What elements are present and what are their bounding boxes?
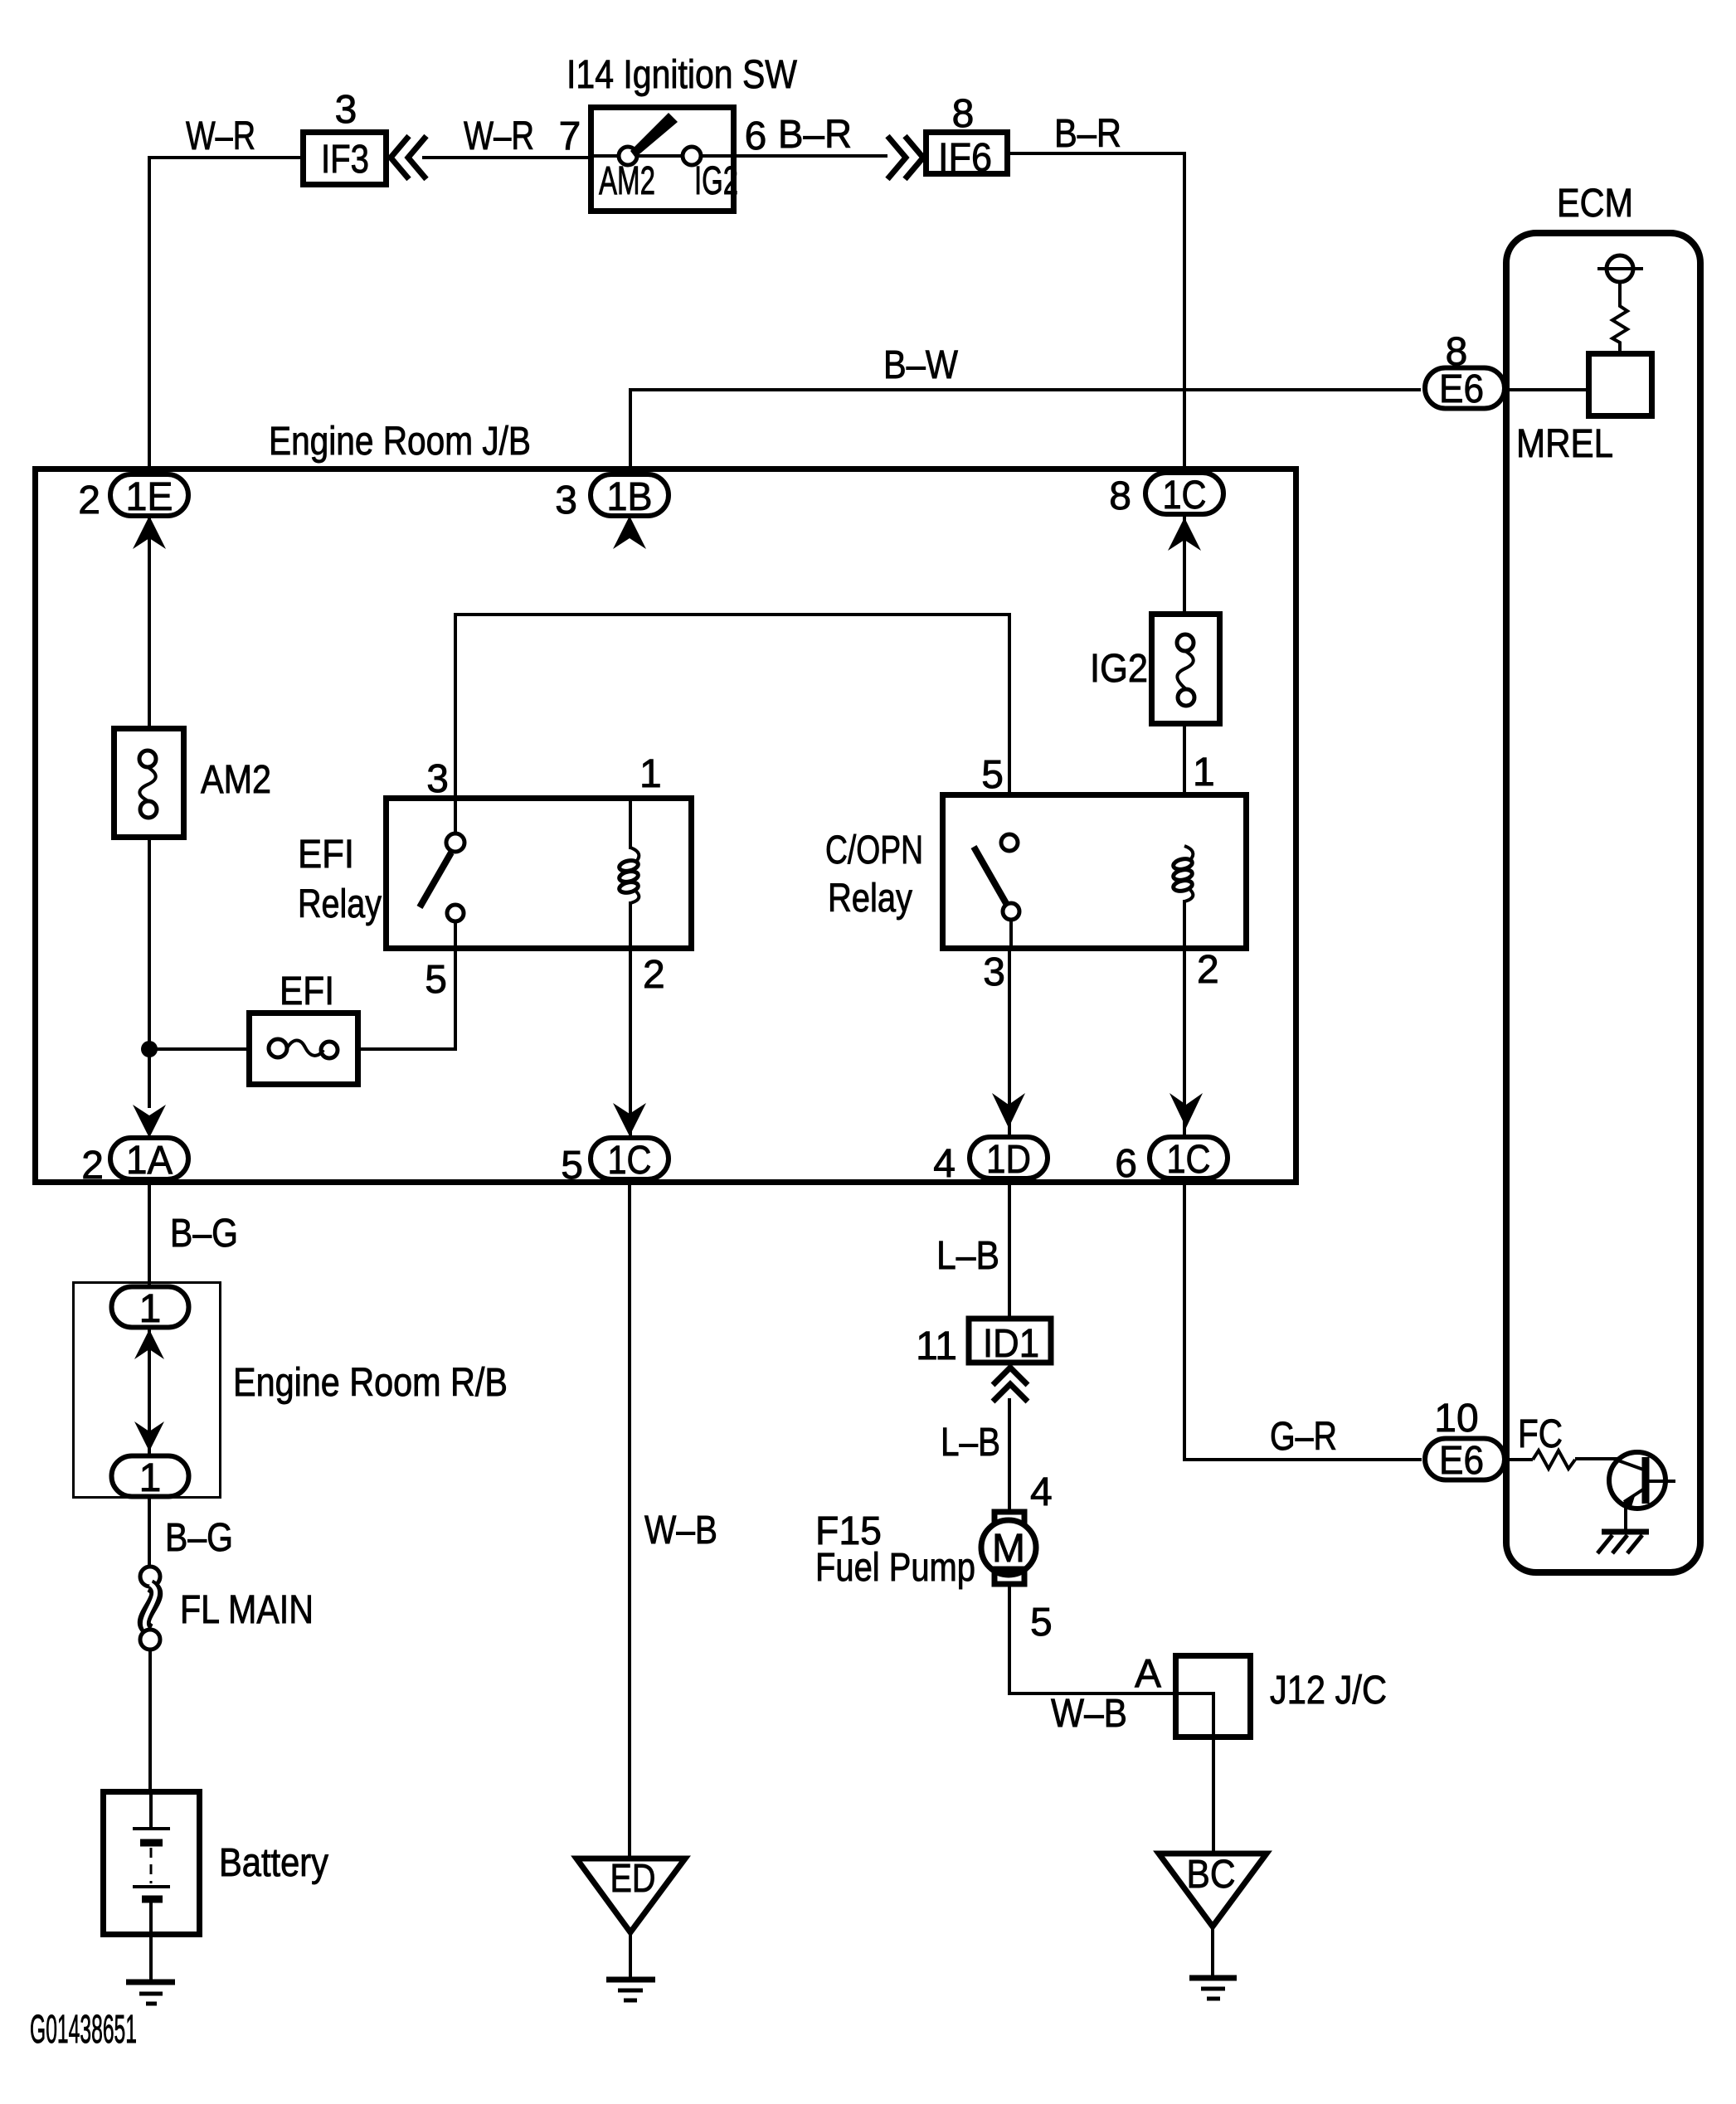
svg-text:A: A — [1135, 1652, 1161, 1696]
wire AM2 fuse to junction — [148, 838, 151, 1108]
svg-text:6: 6 — [1115, 1142, 1137, 1186]
svg-text:ECM: ECM — [1557, 182, 1633, 226]
wire B-R IF6 to 1C — [1008, 112, 1184, 471]
svg-text:1: 1 — [139, 1456, 162, 1500]
svg-text:AM2: AM2 — [599, 159, 655, 203]
svg-text:IF3: IF3 — [321, 138, 369, 182]
svg-text:7: 7 — [559, 114, 581, 158]
wire FL MAIN to battery — [148, 1650, 152, 1792]
connector 1C pin 6 — [1115, 1137, 1228, 1186]
connector chevrons at IF6 — [887, 136, 923, 179]
wire B-W 1B to E6 — [630, 343, 1421, 469]
svg-text:1: 1 — [639, 752, 662, 796]
transistor FC driver — [1609, 1452, 1675, 1531]
ground battery — [126, 1982, 175, 2004]
svg-text:3: 3 — [426, 757, 449, 801]
fuel pump F15 motor — [815, 1509, 1036, 1590]
MREL pull-up terminal circle — [1597, 255, 1643, 282]
arrow into 1C pin 6 — [1169, 1093, 1203, 1128]
wire G-R 1C to E6 — [1184, 1178, 1422, 1460]
connector 1D — [933, 1137, 1048, 1186]
svg-text:2: 2 — [643, 953, 665, 997]
pin 8 label of IF6 — [952, 92, 975, 136]
svg-text:11: 11 — [916, 1324, 957, 1368]
connector E6 pin 8 — [1425, 330, 1505, 411]
svg-text:1C: 1C — [1163, 474, 1207, 517]
svg-text:B–W: B–W — [883, 343, 959, 387]
wire battery to ground — [149, 1935, 153, 1982]
C/OPN relay pin labels — [981, 751, 1218, 994]
svg-text:B–R: B–R — [1054, 112, 1121, 156]
connector 1C pin 8 — [1109, 473, 1223, 518]
svg-text:10: 10 — [1434, 1397, 1478, 1441]
wire L-B 1D to ID1 — [936, 1178, 1009, 1319]
svg-text:B–G: B–G — [170, 1212, 238, 1256]
C/OPN relay switch — [974, 834, 1019, 950]
ignition switch AM2 contact — [599, 147, 655, 203]
svg-text:IG2: IG2 — [1090, 647, 1148, 691]
wire W-B fuel pump to J12 — [1009, 1585, 1175, 1736]
svg-text:3: 3 — [555, 479, 577, 522]
fuse IG2 — [1090, 615, 1220, 724]
fuse EFI — [149, 969, 358, 1085]
wire EFI fuse to relay pin 5 — [357, 951, 455, 1049]
ECM box — [1506, 182, 1700, 1572]
svg-text:1A: 1A — [126, 1139, 173, 1183]
wire J12 to BC — [1212, 1737, 1215, 1854]
chassis ground inside ECM — [1597, 1532, 1649, 1553]
ground ED — [606, 1980, 655, 2000]
svg-text:FC: FC — [1518, 1412, 1563, 1456]
ground BC — [1189, 1978, 1237, 1999]
wire C/OPN pin 3 down to 1D — [1008, 951, 1011, 1136]
svg-text:Battery: Battery — [219, 1841, 328, 1885]
ignition switch lever — [630, 113, 678, 158]
wire W-B 1C to ED — [630, 1179, 717, 1859]
svg-text:Fuel Pump: Fuel Pump — [815, 1546, 975, 1590]
svg-text:8: 8 — [1446, 330, 1468, 374]
C/OPN relay coil — [1173, 846, 1194, 950]
svg-text:W–B: W–B — [1051, 1692, 1127, 1736]
FC net label — [1518, 1412, 1563, 1456]
svg-text:5: 5 — [561, 1144, 583, 1188]
svg-text:1C: 1C — [608, 1139, 652, 1183]
svg-text:B–G: B–G — [165, 1516, 233, 1560]
arrow into 1C pin 5 — [613, 1103, 646, 1136]
svg-text:1D: 1D — [986, 1138, 1031, 1182]
svg-text:EFI: EFI — [280, 969, 334, 1013]
svg-text:L–B: L–B — [936, 1234, 999, 1278]
svg-text:FL MAIN: FL MAIN — [180, 1588, 314, 1632]
svg-text:E6: E6 — [1439, 1439, 1484, 1483]
Engine Room J/B box — [36, 420, 1296, 1183]
connector ID1 — [916, 1319, 1051, 1368]
svg-text:Relay: Relay — [828, 877, 912, 921]
svg-text:5: 5 — [425, 958, 447, 1002]
svg-text:G01438651: G01438651 — [30, 2008, 137, 2052]
svg-text:W–R: W–R — [464, 114, 534, 158]
svg-text:3: 3 — [335, 88, 357, 132]
wire IG2 fuse to C/OPN coil pin 1 — [1183, 723, 1186, 798]
pin 6 label — [745, 114, 767, 158]
wire EFI relay pin 2 down to 1C — [629, 951, 632, 1138]
svg-text:J12 J/C: J12 J/C — [1270, 1669, 1387, 1713]
svg-text:ED: ED — [610, 1857, 656, 1901]
wire MREL inside ECM — [1503, 388, 1589, 391]
wire 1E to AM2 fuse — [148, 516, 151, 728]
svg-text:4: 4 — [1030, 1470, 1053, 1514]
ground triangle BC — [1159, 1853, 1267, 1927]
fuse IF6 — [926, 133, 1008, 181]
svg-text:2: 2 — [1197, 948, 1219, 992]
ignition switch I14 box — [591, 108, 734, 211]
svg-text:1E: 1E — [126, 475, 173, 519]
wire EFI relay pin 3 to C/OPN pin 5 — [455, 615, 1009, 798]
fuse AM2 — [114, 729, 272, 838]
junction node — [141, 1041, 158, 1057]
connector chevrons at IF3 — [391, 136, 426, 179]
pin A label of J12 — [1135, 1652, 1161, 1696]
svg-text:MREL: MREL — [1516, 422, 1613, 466]
arrow into R/B connector 1 — [134, 1329, 164, 1359]
wire W-R ignition to IF3 — [422, 114, 591, 158]
connector E6 pin 10 — [1425, 1397, 1505, 1483]
pin 3 label of IF3 — [335, 88, 357, 132]
arrow into 1E — [133, 516, 166, 549]
svg-text:M: M — [992, 1527, 1025, 1571]
svg-text:Relay: Relay — [298, 882, 382, 926]
svg-text:AM2: AM2 — [201, 758, 271, 802]
ground triangle ED — [576, 1857, 685, 1932]
svg-text:ID1: ID1 — [983, 1322, 1039, 1366]
note G01438651 — [30, 2008, 137, 2052]
ignition switch internal wire — [588, 154, 737, 158]
junction connector J12 J/C — [1175, 1656, 1387, 1738]
svg-text:Engine Room J/B: Engine Room J/B — [269, 420, 531, 464]
FC resistor — [1503, 1450, 1617, 1469]
svg-text:4: 4 — [933, 1142, 956, 1186]
connector 1C pin 5 — [561, 1138, 669, 1188]
svg-text:Engine Room R/B: Engine Room R/B — [233, 1361, 508, 1405]
pin 4 label of fuel pump — [1030, 1470, 1053, 1514]
svg-text:G–R: G–R — [1270, 1415, 1337, 1459]
svg-text:EFI: EFI — [298, 833, 354, 877]
svg-text:C/OPN: C/OPN — [825, 828, 923, 872]
arrow into 1A — [133, 1105, 166, 1138]
MREL pull-up resistor — [1612, 282, 1627, 353]
EFI relay box — [298, 799, 692, 949]
C/OPN relay box — [825, 795, 1247, 949]
svg-text:8: 8 — [952, 92, 975, 136]
svg-text:W–B: W–B — [644, 1509, 717, 1552]
wire ED to ground — [629, 1932, 632, 1980]
svg-text:8: 8 — [1109, 474, 1131, 518]
svg-text:1: 1 — [1193, 751, 1215, 794]
svg-text:5: 5 — [1030, 1601, 1053, 1645]
wire B-R ignition to IF6 — [734, 113, 887, 157]
connector 1A — [81, 1138, 188, 1188]
svg-text:6: 6 — [745, 114, 767, 158]
wire 1C to IG2 fuse — [1183, 514, 1186, 614]
connector chevrons below ID1 — [993, 1368, 1028, 1402]
svg-text:BC: BC — [1187, 1853, 1236, 1897]
svg-text:L–B: L–B — [941, 1421, 1000, 1465]
connector 1 lower of R/B — [112, 1456, 189, 1501]
Engine Room R/B box — [74, 1283, 508, 1498]
arrow into 1D — [992, 1093, 1025, 1128]
svg-text:IG2: IG2 — [694, 159, 738, 203]
svg-text:3: 3 — [983, 950, 1005, 994]
pin 7 label — [559, 114, 581, 158]
EFI relay coil — [619, 798, 639, 950]
connector 1B — [555, 474, 669, 522]
wire L-B ID1 to fuel pump — [941, 1398, 1009, 1511]
ignition switch IG2 contact — [683, 147, 738, 203]
arrow into 1B — [613, 516, 646, 549]
battery — [104, 1792, 329, 1936]
svg-text:1: 1 — [139, 1287, 162, 1331]
svg-text:2: 2 — [81, 1144, 104, 1188]
wire B-G 1A to Engine Room R/B — [149, 1179, 238, 1286]
svg-text:I14 Ignition SW: I14 Ignition SW — [567, 53, 798, 97]
wire between R/B connectors — [148, 1328, 151, 1455]
svg-text:B–R: B–R — [778, 113, 852, 157]
arrow into 1C — [1168, 517, 1201, 551]
wire BC to ground — [1211, 1927, 1214, 1978]
ignition switch I14 label — [567, 53, 798, 97]
svg-text:W–R: W–R — [186, 114, 255, 158]
connector 1 of R/B — [112, 1287, 189, 1332]
svg-text:1B: 1B — [607, 475, 653, 519]
wire B-G R/B to FL MAIN — [149, 1496, 233, 1567]
svg-text:1C: 1C — [1167, 1138, 1211, 1182]
EFI relay switch — [420, 795, 464, 950]
wire C/OPN pin 2 down to 1C — [1183, 951, 1186, 1136]
MREL driver box — [1516, 354, 1652, 467]
svg-text:2: 2 — [78, 479, 100, 522]
fusible link FL MAIN — [140, 1567, 314, 1650]
svg-text:5: 5 — [981, 753, 1004, 797]
svg-text:IF6: IF6 — [938, 136, 992, 180]
EFI relay pin labels — [425, 752, 664, 1002]
fuse IF3 — [304, 133, 387, 185]
wire W-R IF3 to 1E — [149, 114, 303, 474]
pin 5 label of fuel pump — [1030, 1601, 1053, 1645]
arrow into lower R/B connector — [134, 1421, 164, 1451]
connector 1E — [78, 474, 188, 522]
